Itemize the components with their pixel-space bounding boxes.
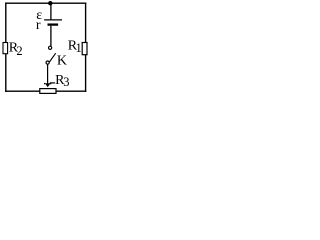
- rheostat slider arrowhead: [45, 83, 51, 87]
- wire bottom: [5, 90, 86, 92]
- wire right: [85, 3, 87, 92]
- rheostat slider arrow left barb: [44, 83, 45, 84]
- resistor R1 body box: [82, 43, 87, 55]
- svg-text:r: r: [36, 18, 41, 33]
- wire top: [5, 2, 86, 4]
- svg-text:1: 1: [76, 41, 82, 55]
- svg-text:3: 3: [63, 75, 69, 89]
- rheostat slider arrow right barb: [50, 83, 51, 84]
- svg-text:2: 2: [16, 44, 22, 58]
- resistor R2 body box: [3, 43, 8, 54]
- switch K lower contact circle: [46, 61, 49, 64]
- wire battery top lead: [50, 3, 52, 19]
- tick mark under label R3: [50, 82, 55, 84]
- battery short plate (-): [48, 23, 59, 25]
- wire battery bottom lead: [50, 26, 52, 47]
- node junction dot: [48, 1, 52, 5]
- svg-text:K: K: [57, 54, 67, 69]
- rheostat R3 body box: [40, 89, 56, 94]
- switch K upper contact circle: [49, 46, 52, 49]
- wire left: [5, 3, 7, 92]
- battery long plate (+): [44, 19, 62, 21]
- switch K lever: [49, 53, 55, 62]
- wire switch to rheostat slider: [47, 64, 49, 83]
